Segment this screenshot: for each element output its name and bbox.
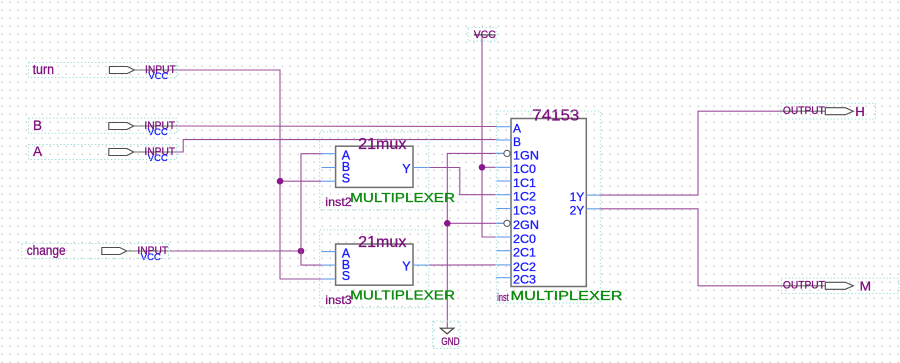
svg-text:S: S: [342, 171, 350, 185]
pin stub 74153 2Y: [586, 208, 599, 210]
wire branch GND to 2GN: [447, 222, 504, 224]
wire 74153 2Y to output M: [600, 209, 782, 286]
svg-text:A: A: [513, 122, 521, 136]
pin bubble 74153 2GN: [504, 220, 510, 226]
svg-text:VCC: VCC: [148, 71, 168, 81]
node junction turn/inst2.S: [277, 178, 284, 185]
selection box 74153: [496, 111, 600, 303]
wire inst2 Y output to 74153 1C2: [429, 168, 496, 195]
pin stub 74153 2C2: [496, 264, 511, 266]
pin stub 74153 1Y: [586, 194, 599, 196]
svg-text:H: H: [855, 104, 865, 119]
svg-text:2C1: 2C1: [513, 246, 536, 260]
selection box change: [22, 244, 169, 259]
svg-text:OUTPUT: OUTPUT: [783, 105, 825, 117]
node junction VCC/1C0: [479, 164, 486, 171]
selection box A: [29, 145, 177, 160]
wire input change to node: [170, 250, 301, 252]
svg-text:inst: inst: [497, 292, 509, 304]
svg-text:M: M: [860, 279, 872, 294]
input pin turn: [109, 67, 134, 74]
output pin M: [782, 285, 826, 287]
pin stub inst3 Y: [413, 264, 429, 266]
svg-text:1Y: 1Y: [570, 190, 585, 204]
svg-text:turn: turn: [33, 62, 54, 77]
svg-text:2C0: 2C0: [513, 232, 536, 246]
svg-text:B: B: [33, 118, 42, 133]
svg-text:Y: Y: [402, 162, 411, 176]
wire GND net to 1GN 2GN: [447, 153, 504, 327]
mux U inst3 body: [336, 244, 413, 285]
svg-text:2C3: 2C3: [513, 273, 536, 287]
power VCC symbol: [474, 34, 496, 36]
pin stub 74153 1C2: [496, 194, 511, 196]
selection box inst3: [320, 230, 429, 308]
pin bubble 74153 1GN: [504, 150, 510, 156]
wire input A to 74153 pin B: [176, 140, 496, 152]
selection box H: [781, 103, 876, 119]
svg-text:MULTIPLEXER: MULTIPLEXER: [511, 288, 623, 303]
selection box M: [782, 278, 899, 293]
pin stub 74153 A: [496, 126, 511, 128]
svg-text:VCC: VCC: [474, 29, 496, 41]
svg-text:VCC: VCC: [141, 252, 161, 262]
wire VCC net to 1C0 and 2C0: [482, 37, 496, 238]
pin stub 74153 1C3: [496, 208, 511, 210]
pin stub inst2 B: [321, 167, 335, 169]
pin stub 74153 B: [496, 139, 511, 141]
pin stub inst3 S: [321, 278, 335, 280]
node junction GND/2GN: [444, 220, 451, 227]
mux U inst2 body: [336, 146, 413, 187]
pin stub inst3 B: [321, 264, 335, 266]
selection box VCC: [468, 28, 496, 42]
svg-text:A: A: [33, 144, 42, 159]
pin stub 74153 1C0: [496, 166, 511, 168]
output pin H: [782, 110, 826, 112]
svg-text:GND: GND: [441, 336, 460, 348]
wire turn net: input turn to inst2.S and inst3.S: [177, 70, 322, 279]
selection box B: [29, 118, 177, 133]
input pin B: [109, 123, 134, 130]
svg-text:inst3: inst3: [325, 293, 352, 307]
pin stub 74153 2C3: [496, 277, 511, 279]
svg-text:OUTPUT: OUTPUT: [783, 280, 825, 292]
svg-text:2Y: 2Y: [570, 203, 585, 217]
svg-text:21mux: 21mux: [358, 136, 406, 153]
wire vertical change-net to inst2.A and inst3.B: [301, 154, 321, 265]
selection box GND: [433, 321, 460, 348]
wire inst3 Y output to 74153 2C2: [429, 264, 496, 266]
svg-text:1C3: 1C3: [513, 203, 536, 217]
svg-text:B: B: [513, 135, 521, 149]
pin stub inst3 A: [321, 251, 335, 253]
wire branch turn to inst2 S pin: [280, 180, 321, 182]
svg-text:VCC: VCC: [148, 127, 168, 137]
pin stub inst2 S: [321, 180, 335, 182]
selection box inst2: [320, 132, 429, 210]
pin stub 74153 1GN: [496, 152, 504, 154]
svg-text:2GN: 2GN: [513, 218, 539, 232]
chip U 74153 body: [511, 119, 586, 287]
svg-text:1C1: 1C1: [513, 176, 536, 190]
wire 74153 1Y to output H: [600, 111, 782, 195]
pin stub inst2 A: [321, 153, 335, 155]
wire branch VCC to 1C0: [482, 166, 496, 168]
selection box turn: [29, 63, 177, 78]
svg-text:MULTIPLEXER: MULTIPLEXER: [350, 190, 455, 205]
pin stub 74153 2C0: [496, 236, 511, 238]
svg-text:Y: Y: [402, 260, 411, 274]
svg-text:MULTIPLEXER: MULTIPLEXER: [350, 288, 455, 303]
input pin A: [109, 149, 134, 156]
wire input B to 74153 pin A: [176, 125, 496, 128]
svg-text:S: S: [342, 269, 350, 283]
svg-text:VCC: VCC: [148, 153, 168, 163]
svg-text:inst2: inst2: [325, 195, 352, 209]
svg-text:1C0: 1C0: [513, 162, 536, 176]
pin stub 74153 2GN: [496, 222, 504, 224]
ground GND symbol: [440, 328, 453, 334]
svg-text:1GN: 1GN: [513, 148, 539, 162]
svg-text:1C2: 1C2: [513, 190, 536, 204]
pin stub 74153 2C1: [496, 250, 511, 252]
pin stub 74153 1C1: [496, 180, 511, 182]
pin stub inst2 Y: [413, 167, 429, 169]
svg-text:74153: 74153: [532, 107, 579, 124]
node junction change/vertical: [298, 248, 305, 255]
svg-text:21mux: 21mux: [358, 234, 406, 251]
svg-text:change: change: [27, 243, 66, 258]
input pin change: [102, 248, 127, 255]
